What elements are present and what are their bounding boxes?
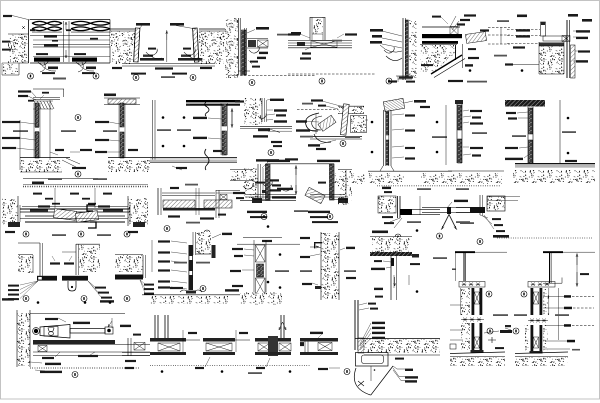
- detail 27 wall below: [391, 256, 397, 300]
- detail 2 callout bubble right: [190, 75, 196, 81]
- detail 18: floor transition plan: [158, 184, 215, 215]
- detail 20 wall strip: [398, 196, 401, 218]
- detail 2 callout bubble left: [133, 75, 139, 81]
- detail 17 clamp hardware: [87, 205, 96, 228]
- detail 13 callout bubble: [340, 141, 346, 147]
- detail 27 left leaders: [371, 260, 391, 298]
- detail 30 header band: [33, 340, 150, 356]
- detail 23C leaders: [140, 280, 154, 295]
- detail 38 left margin leader: [505, 325, 511, 330]
- detail 6 mitre joint diagonal: [431, 44, 465, 78]
- detail 7 blocking member: [543, 36, 570, 42]
- detail 12 trim cluster: [262, 179, 296, 199]
- detail 38: shaft wall base right, room label: [555, 314, 569, 316]
- detail 23C floor bar: [115, 275, 143, 280]
- detail 4 leaders: [288, 47, 375, 74]
- detail 17 door leafs: [20, 205, 130, 222]
- detail 28: shaft wall suspension detail left, T-rail: [452, 251, 507, 281]
- detail 3 base dashed line: [228, 71, 315, 76]
- detail 12: wall base detail lower: [256, 158, 298, 168]
- detail 14 base and ground: [334, 166, 452, 184]
- detail 24 ground: [142, 262, 242, 304]
- detail 21: expansion joint detail: [407, 200, 470, 230]
- detail 2 concrete wall left: [110, 32, 136, 65]
- detail 19 jamb right: [330, 164, 349, 203]
- detail 23A leaders: [2, 281, 38, 301]
- detail 23B floor bar: [62, 276, 88, 281]
- detail 29: shaft wall suspension detail right, T-rail: [543, 251, 595, 287]
- detail 28 callout bubble: [486, 291, 492, 297]
- detail 16: exterior wall w/ tile finish, far right: [505, 100, 545, 107]
- detail 27: soffit and wall section center-right: [370, 237, 412, 252]
- detail 3 callout bubble: [249, 80, 255, 86]
- detail 17 concrete jamb right: [128, 196, 148, 227]
- detail 8 mid labels: [50, 149, 92, 155]
- detail 22 bottom leaders: [460, 215, 509, 238]
- detail 5 callout bubble: [386, 78, 392, 84]
- detail 13 curved gasket: [306, 113, 322, 131]
- detail 24 mullion: [189, 245, 216, 290]
- detail 23 sub-detail B soffit corner: [62, 244, 100, 275]
- detail 25: furred wall plan center: [237, 238, 300, 245]
- detail 19 center leaders: [243, 182, 380, 192]
- detail 16 wall strips: [528, 107, 533, 163]
- detail 36 ground slab: [355, 339, 440, 356]
- detail 8 callout bubble: [75, 115, 81, 121]
- detail 13 head stipple band: [338, 106, 364, 113]
- marker dot between details 6 and 7: [521, 69, 524, 72]
- detail 6 concrete mass: [420, 45, 457, 74]
- detail 20 bottom leaders: [372, 216, 402, 233]
- detail 15 right leaders: [463, 110, 487, 157]
- detail 6: soffit corner at sloped ceiling: [422, 27, 462, 44]
- detail 19 wall band left: [230, 170, 253, 181]
- detail 17: sliding door plan, large left: [23, 178, 148, 186]
- detail 34 posts top: [279, 315, 286, 338]
- detail 2 sill assemblies: [122, 30, 215, 66]
- detail 1 callout bubble A: [28, 73, 34, 79]
- detail 29 callout bubble: [521, 291, 527, 297]
- detail 19 jamb left: [252, 164, 270, 203]
- detail 29 hanger bracket: [528, 282, 555, 288]
- detail 8: wall base at exterior, section: [18, 89, 64, 100]
- detail 25 right markers: [275, 253, 281, 289]
- detail 26 leaders: [300, 237, 321, 289]
- detail 18 right corner: [216, 190, 245, 218]
- detail 9 leaders left: [95, 121, 120, 153]
- detail 25 ground bar: [240, 293, 282, 305]
- detail 22: slab edge corner right: [448, 195, 485, 215]
- detail 7 concrete block: [539, 42, 564, 74]
- detail 11 base: [240, 127, 292, 148]
- detail 26 right labels: [340, 247, 356, 279]
- detail 4 callout bubble: [319, 78, 325, 84]
- detail 8 hatch fan at ceiling: [33, 101, 54, 109]
- detail 8 interior face line: [49, 100, 51, 170]
- detail 36 right leaders: [393, 358, 418, 383]
- detail 15: exterior wall section right-center: [455, 100, 463, 163]
- detail 2: window jamb plan pair: [110, 29, 135, 31]
- detail 1 soffit box lines: [30, 20, 110, 64]
- detail 6 extra label: [432, 16, 448, 24]
- detail 7 right leaders: [573, 30, 590, 62]
- detail 9 floor slab: [108, 149, 155, 172]
- detail 17 callout bubbles: [23, 231, 130, 237]
- detail 14 room labels and dots: [345, 105, 447, 165]
- detail 1 leader hooks: [38, 59, 86, 72]
- detail 4: door head section: [288, 32, 352, 48]
- detail 37 leaders: [450, 305, 512, 349]
- detail 19 hatched threshold: [305, 187, 325, 203]
- detail 3 interior label: [277, 34, 290, 36]
- detail 3: wall section at interior partition: [225, 18, 247, 78]
- detail 27 right leaders: [409, 229, 447, 293]
- detail 10 leaders: [193, 100, 245, 139]
- detail 13 sill lines: [310, 137, 362, 139]
- detail 3 extra annotations: [248, 60, 260, 68]
- detail 16 left leaders: [505, 112, 528, 160]
- detail 8 floor slab: [20, 120, 86, 172]
- detail 36: scupper drain detail bottom-center: [355, 300, 378, 350]
- detail 10 bottom label: [172, 166, 187, 170]
- detail 6 hatched trim block: [465, 32, 486, 44]
- detail 13 bottom curve and labels: [300, 134, 336, 150]
- detail 8 leaders left: [2, 121, 35, 150]
- detail 25 left leaders: [225, 248, 254, 292]
- detail 1 callout bubble B: [93, 73, 99, 79]
- detail 24: window sill section center-left: [193, 232, 211, 255]
- detail 9: wall base section B: [104, 94, 140, 105]
- detail 6 top leaders: [450, 14, 489, 31]
- detail 14 wall strips: [384, 110, 392, 166]
- detail 37: shaft wall base left, room labels: [493, 314, 527, 316]
- detail 28 stud column: [461, 288, 483, 315]
- detail 3 bracket cluster: [247, 27, 269, 59]
- detail 23 sub-detail C slab edge: [115, 240, 152, 278]
- detail 1 center mullion dimension: [64, 21, 70, 62]
- detail 10 marker dots: [162, 116, 186, 147]
- detail 18 tile band left: [163, 200, 215, 211]
- detail 20 concrete block: [378, 196, 396, 213]
- detail 18 bottom labels: [168, 214, 226, 224]
- detail 26: concrete wall corner plan left-center: [321, 232, 339, 300]
- detail 19: door jamb plan pair center: [267, 160, 340, 164]
- detail 28 hanger bracket: [459, 282, 485, 288]
- detail 29 right leaders: [497, 238, 594, 309]
- detail 10 wall strip: [221, 103, 228, 155]
- detail 4 stud column: [310, 17, 325, 40]
- detail 13 mullion: [340, 104, 349, 135]
- detail 13 right panel: [351, 116, 369, 133]
- detail 23B labels: [50, 256, 114, 303]
- detail 1 extra annotations: [2, 29, 94, 71]
- detail 5: partition head with leaders: [370, 29, 402, 48]
- detail 5 leader hooks: [380, 45, 402, 61]
- detail 30 ground dotted line: [30, 368, 140, 373]
- detail 30 closer body: [33, 325, 113, 339]
- detail 13 left leaders: [296, 114, 320, 134]
- detail 4 blocking xbox: [297, 41, 337, 48]
- detail 23B keyhole anchor: [68, 281, 76, 291]
- detail 2 bottom labels: [112, 67, 212, 78]
- detail 16 interior face and dots: [560, 100, 577, 163]
- detail 36 top labels: [360, 322, 385, 350]
- detail 37 lower column: [461, 323, 484, 353]
- detail 38 lower column: [525, 325, 549, 354]
- detail 19 callout bubbles: [261, 214, 333, 220]
- detail 6 interior dims: [488, 20, 510, 56]
- detail 12 concrete wall: [244, 164, 263, 199]
- detail 13 hatched trim block: [318, 115, 336, 131]
- detail 30 callout bubble: [72, 372, 78, 378]
- detail 18 tile band right: [196, 188, 232, 215]
- detail 1 dark trim bar left: [34, 58, 60, 62]
- detail 37 bracing ticks: [461, 318, 484, 322]
- detail 30: door closer device plan, large bottom-left: [17, 310, 131, 367]
- detail 1: ceiling soffit section with batt insulation: [30, 19, 110, 21]
- detail 10 room labels: [157, 129, 191, 131]
- detail 8 floor callout bubble: [75, 171, 81, 177]
- detail 10 break squiggle bottom: [205, 149, 209, 170]
- detail 24 right leaders: [212, 225, 289, 283]
- detail 19 bottom labels: [247, 210, 338, 223]
- detail 38 bracing ticks: [528, 319, 548, 323]
- detail 33: partition plan strip 3: [195, 330, 250, 369]
- detail 14 right leaders: [392, 114, 415, 160]
- detail 17 extra assembly lines: [22, 203, 128, 207]
- detail 38 ground: [515, 352, 568, 366]
- detail 36 drain box: [356, 353, 389, 382]
- detail 38 right leaders: [513, 324, 594, 350]
- detail 36 hatched wall strip: [358, 338, 364, 353]
- detail 11 right leaders: [258, 109, 287, 122]
- detail 2 concrete wall right: [199, 29, 226, 64]
- detail 34: partition plan strip 4 with mullion: [255, 336, 291, 369]
- bottom row marker dots: [161, 370, 292, 374]
- detail 2 top labels: [136, 23, 196, 29]
- detail 5 wall: [403, 18, 417, 80]
- detail 22 callout bubble: [477, 239, 483, 245]
- detail 10: interior elevation with break lines: [153, 100, 241, 160]
- detail 36 funnel: [354, 366, 393, 395]
- detail 10 floor band: [150, 150, 237, 163]
- detail 14: partition section center: [383, 98, 430, 111]
- detail 11: wall base cove detail: [244, 98, 267, 125]
- detail 4 side labels: [288, 33, 357, 38]
- detail 11 top leader: [267, 99, 284, 101]
- detail 8 extra annotations: [28, 92, 49, 102]
- detail 21 callout bubble: [437, 233, 443, 239]
- detail 19 wall band right: [338, 170, 352, 206]
- detail 7 left dashed leaders: [507, 29, 540, 48]
- detail 15 ground slab: [448, 171, 504, 184]
- detail 8 wall strip: [34, 103, 40, 158]
- detail 1 labels: [3, 15, 96, 80]
- detail 24 left leaders: [158, 240, 187, 289]
- detail 7 left long leader: [505, 63, 539, 65]
- detail 37 ground: [450, 352, 505, 366]
- detail 35: partition plan strip 5: [300, 332, 338, 355]
- detail 6 right leaders: [465, 48, 479, 67]
- detail 36 left leader and bubble: [318, 368, 350, 375]
- detail 31: partition plan strip 1: [122, 334, 150, 370]
- bottom row dotted datum line: [150, 365, 310, 367]
- detail 24 foot ticks: [180, 290, 202, 294]
- detail 6 furring xbox: [450, 27, 458, 35]
- insulation batt left: [32, 21, 62, 32]
- row 5 marker dots: [37, 301, 112, 304]
- detail 17 labels: [5, 205, 138, 236]
- insulation batt right: [71, 21, 110, 32]
- detail 23A floor bar: [37, 276, 57, 281]
- detail 23 bottom callout bubbles: [23, 296, 130, 302]
- detail 12 base line: [240, 200, 296, 202]
- detail 19 sill lines: [245, 165, 346, 205]
- detail 26 bracket: [314, 242, 322, 248]
- detail 20 callout bubble: [395, 234, 401, 240]
- detail 30 lower leaders: [30, 352, 98, 365]
- detail 6 bottom labels: [421, 64, 487, 82]
- detail 2 left jamb mullion: [134, 28, 140, 62]
- detail 27 soffit bar: [370, 252, 412, 256]
- detail 22 stipple block: [487, 196, 520, 211]
- concrete slab left of detail 1: [2, 20, 29, 76]
- detail 7 wall face: [567, 20, 575, 78]
- detail 6 marker dot: [469, 69, 472, 72]
- detail 20 dark base bar: [400, 196, 440, 215]
- detail 17 inner annotations: [33, 188, 112, 208]
- detail 16 floor band and ground: [513, 163, 595, 183]
- detail 8 room labels: [13, 130, 76, 132]
- detail 18 callout bubbles: [164, 226, 210, 237]
- detail 23: wall base plan trio, sub-detail A corner: [18, 243, 43, 278]
- detail 5 base: [332, 40, 415, 83]
- detail 7: parapet coping section right: [517, 14, 592, 36]
- detail 29 stud column: [531, 288, 559, 340]
- detail 10 break squiggle top: [205, 102, 209, 116]
- detail 25 xbox wall segments: [254, 240, 266, 296]
- detail 11 callout bubble: [268, 150, 274, 156]
- detail 17 concrete jamb left: [2, 196, 20, 227]
- detail 9 wall strip: [119, 103, 125, 158]
- detail 32: partition plan strip 2: [150, 315, 200, 355]
- detail 20: base detail with dark shadow box: [377, 186, 500, 193]
- detail 1 dark trim bar right: [72, 58, 97, 62]
- detail 13: curtain wall mullion plan: [297, 99, 344, 110]
- detail 2 right jamb mullion: [193, 28, 199, 62]
